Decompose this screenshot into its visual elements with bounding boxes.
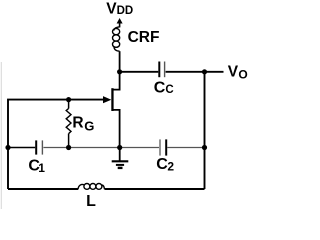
capacitor C1: [35, 140, 37, 154]
ground: [119, 148, 121, 161]
wire: output lead: [205, 71, 224, 73]
node: right rail / C2 junction dot: [202, 145, 207, 150]
transistor Q1 gate arrow: [103, 96, 111, 103]
node: RG top junction dot: [66, 97, 71, 102]
capacitor C2: [159, 139, 161, 155]
svg-text:O: O: [238, 68, 247, 82]
svg-text:V: V: [228, 64, 239, 81]
wire: left rail to C1: [8, 147, 35, 149]
resistor RG: [68, 100, 70, 109]
svg-text:C: C: [165, 84, 173, 96]
inductor L: [78, 184, 104, 190]
wire: C2 to right rail: [167, 147, 204, 149]
wire: bottom rail left: [8, 188, 78, 190]
wire: top rail, drain node to CC: [120, 71, 159, 73]
wire: right rail: [204, 72, 206, 189]
wire: choke to drain node: [119, 51, 121, 72]
VDD supply arrow: [117, 18, 123, 24]
wire: C1 to source node: [43, 147, 159, 149]
transistor Q1 channel bar: [111, 88, 113, 111]
svg-text:DD: DD: [117, 5, 134, 17]
svg-text:1: 1: [38, 161, 45, 175]
node: RG bottom junction dot: [66, 145, 71, 150]
svg-text:C: C: [154, 80, 166, 97]
wire: gate rail: [8, 100, 104, 189]
svg-text:L: L: [86, 193, 96, 209]
wire: CC to output node: [166, 71, 205, 73]
svg-text:V: V: [106, 0, 117, 17]
svg-text:R: R: [72, 115, 83, 132]
inductor CRF (RF choke): [113, 27, 120, 51]
svg-text:G: G: [84, 118, 94, 133]
node: source/ground junction dot: [117, 145, 122, 150]
scan edge artifact: [1, 62, 2, 209]
svg-text:CRF: CRF: [128, 29, 160, 46]
svg-text:C: C: [156, 156, 168, 173]
node: left rail / C1 junction dot: [5, 145, 10, 150]
node: output junction dot: [202, 69, 207, 74]
transistor Q1 source lead: [113, 110, 120, 148]
wire: bottom rail right: [105, 188, 205, 190]
transistor Q1 drain lead: [113, 72, 120, 90]
node: drain junction dot: [117, 69, 122, 74]
svg-text:2: 2: [167, 159, 174, 173]
capacitor CC: [158, 62, 160, 78]
